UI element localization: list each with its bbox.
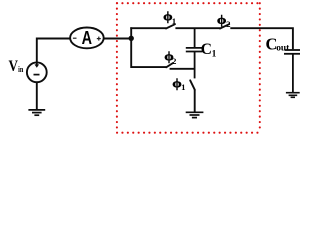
voltage source VS1 (27, 62, 47, 83)
capacitor C1 (186, 28, 203, 78)
svg-text:1: 1 (172, 16, 176, 26)
wire top rail left (130, 27, 166, 29)
svg-text:out: out (276, 44, 290, 54)
svg-text:1: 1 (181, 82, 185, 92)
wire bottom rail left (131, 66, 166, 68)
svg-text:C: C (201, 41, 212, 58)
svg-text:A: A (82, 27, 92, 48)
ammeter A (70, 27, 104, 48)
wire top rail right to Cout (230, 28, 293, 49)
capacitor Cout (284, 50, 300, 92)
wire Vin-bottom to ground (36, 82, 38, 109)
ground GND3 (286, 93, 300, 98)
switch S4 lever (phi1 vertical) (190, 80, 195, 89)
ground GND1 (28, 110, 45, 115)
ground GND2 (186, 112, 204, 117)
switch S3 lever (phi2 bottom) (166, 63, 173, 67)
wire ammeter to node (104, 38, 130, 40)
svg-text:V: V (9, 58, 19, 75)
svg-text:2: 2 (172, 56, 177, 66)
wire Vin-top to main rail (37, 39, 70, 63)
red dotted boundary box (117, 3, 260, 133)
svg-text:in: in (18, 64, 24, 74)
wire switch S4 to ground (194, 90, 196, 112)
switch S2 lever (phi2 top) (220, 24, 229, 28)
svg-text:1: 1 (212, 49, 217, 59)
wire top rail middle (175, 27, 220, 29)
wire vertical branch at node (130, 27, 132, 68)
switch S1 lever (phi1 top) (166, 24, 175, 28)
wire bottom rail right (170, 68, 196, 70)
node junction dot (129, 36, 134, 41)
